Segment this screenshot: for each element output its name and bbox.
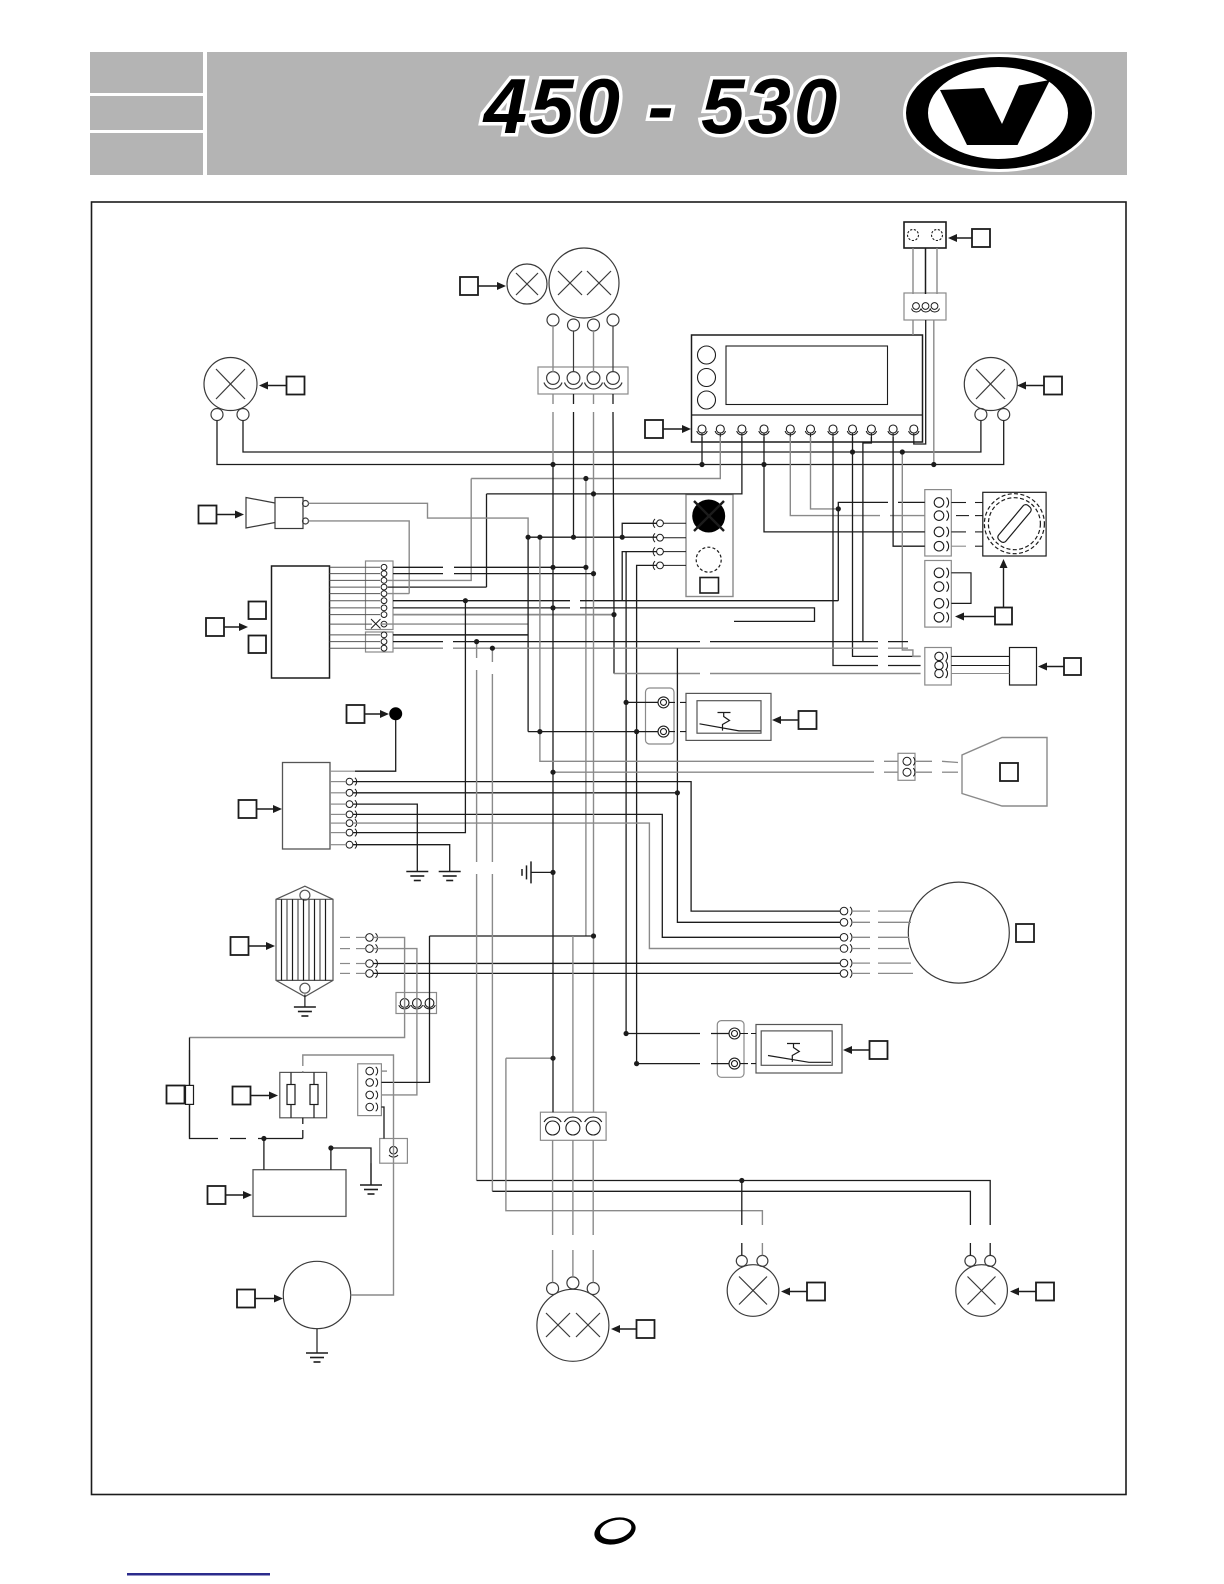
ECU box (253, 1170, 346, 1217)
diagram border frame (92, 202, 1127, 1495)
V logo inner white ellipse (928, 67, 1068, 159)
wire regulator pin3 to ground 1 (353, 804, 417, 871)
dashboard warning light 3 (698, 391, 716, 409)
alternator terminals (840, 907, 852, 978)
starter button box (380, 1139, 408, 1164)
V logo black ellipse (906, 57, 1092, 169)
wire spark feed B (553, 771, 898, 773)
alternator terminal stubs to body (852, 911, 913, 973)
wire rectifier pin1 (190, 937, 405, 1037)
wire tail lamp leads below connector (552, 1140, 554, 1282)
kill switch (filled) (692, 500, 725, 533)
wire CDI pin2 (393, 573, 594, 575)
wire CDI pin6 to key switch feed (393, 600, 838, 602)
label box top right device (948, 229, 990, 247)
wire horn bottom to CDI pin5 (309, 521, 410, 594)
tail lamp (537, 1289, 609, 1361)
label box thermo relay (772, 711, 817, 729)
rear indicator bus 2 (492, 1191, 970, 1255)
rectifier terminals (366, 933, 378, 978)
label box flasher (843, 1041, 888, 1059)
COMPONENTS TOP (204, 222, 1062, 442)
header left gray box row 1 (90, 52, 203, 93)
wire condenser to coil bottom rail (190, 1104, 303, 1138)
wire coil connector pin1 stub (381, 1070, 387, 1072)
position lamp (small) (507, 264, 547, 304)
footer blue rule (127, 1573, 270, 1576)
wire CDI pin4 stub (388, 586, 487, 588)
ground 2 (439, 872, 461, 881)
label box tail lamp (611, 1320, 655, 1338)
CDI unit box (272, 566, 330, 678)
ignition coil (280, 1072, 327, 1117)
dashboard terminal pins (697, 425, 919, 441)
wire CDI pin5 stub (388, 593, 410, 595)
wire dashboard T2 branch (471, 437, 720, 479)
wire tail pin2 riser (572, 936, 574, 1112)
wire horn top to kill switch pin2 (309, 503, 529, 537)
wire regulator pin5 to alternator pin4 (353, 823, 840, 948)
ignition switch connector (4 pin) (925, 490, 952, 556)
dashboard warning light 1 (698, 346, 716, 364)
wire dashboard T5 to key switch pin2 (790, 437, 925, 516)
HEADER (90, 52, 1127, 175)
dashboard unit (692, 335, 923, 442)
wire regulator pin7 to ground 2 (353, 845, 450, 872)
voltage regulator box (283, 763, 331, 850)
spark plug (pentagon) (962, 738, 1047, 807)
headlamp bullet terminals (547, 314, 619, 331)
label box spark plug (1000, 763, 1018, 781)
label box starter motor (237, 1290, 283, 1308)
wire dashboard T6 branch (811, 437, 839, 509)
top right 3-pin connector (904, 293, 946, 320)
COMPONENTS MIDDLE (199, 490, 1082, 849)
label box starter relay (1038, 658, 1081, 675)
wire kill line drop to flasher pin2 line (527, 537, 529, 731)
wire device pin3 to connector (936, 248, 938, 294)
wire brake connector pin1 to dashboard (912, 320, 914, 335)
wire rear left indicator bullet 1 riser (741, 1181, 743, 1256)
wire alternator pins 6 line (373, 972, 840, 974)
wire flasher2 pin1 line (626, 1033, 729, 1035)
wire battery dot to regulator top (355, 720, 396, 771)
front right turn indicator lamp (964, 358, 1017, 421)
wire tail feed 2 drop (491, 648, 493, 1191)
wire alternator pins 5 line (373, 962, 840, 964)
rear left turn indicator (727, 1255, 779, 1316)
wire flasher2 pin2 line (637, 1063, 729, 1065)
junction dot component (battery point) (389, 707, 402, 720)
wire kill switch pin4 (637, 565, 657, 1063)
front left turn indicator lamp (204, 358, 257, 421)
label box key switch (955, 559, 1012, 625)
turn signal flasher box (756, 1025, 842, 1074)
wire flasher1 stubs to box (669, 702, 686, 731)
wire kill switch pin2 line (528, 536, 657, 538)
label box regulator (239, 800, 283, 818)
tail lamp connector (3 socket) (540, 1112, 606, 1140)
wire starter relay pin3 line (614, 673, 921, 675)
wire alternator pin2 riser (677, 648, 840, 922)
header main gray band (207, 52, 1127, 175)
COMPONENTS BOTTOM (167, 882, 1055, 1362)
svg-text:450 - 530: 450 - 530 (482, 62, 841, 150)
regulator terminal stubs (330, 771, 355, 845)
wire spark feed A (540, 537, 898, 761)
wire device pin1 to connector (912, 248, 914, 294)
wire coil connector pin2 riser (381, 936, 429, 1082)
wire flasher1 pin1 line (626, 701, 658, 703)
dashboard LCD display (726, 346, 888, 405)
wire CDI pin8 gray trunk (393, 614, 614, 616)
label box rear left indicator (781, 1283, 825, 1301)
label box CDI left with arrow (206, 618, 248, 636)
rectifier ground (304, 995, 306, 1008)
horn (246, 498, 309, 529)
wire CDI pin7 long with jog (393, 608, 815, 622)
wire coil top to starter motor (303, 1055, 394, 1295)
label box horn (199, 506, 245, 524)
thermo fan relay box (686, 693, 771, 740)
wire CDI pin9 (381, 623, 528, 625)
wire kill switch pin3 (622, 552, 656, 601)
wire dashboard T3 branch (487, 437, 742, 494)
spark plug cap connector (2 pin) (898, 753, 915, 780)
rear indicator bus 3 (506, 1058, 763, 1255)
wire device pin2 to connector (925, 248, 927, 294)
label box CDI lower (249, 636, 267, 654)
V logo letter V (940, 80, 1050, 145)
wire headlamp main drop (pin1) (552, 394, 554, 465)
handlebar switch pod (653, 495, 733, 597)
jumper bracket pins 1-3 (951, 573, 971, 604)
wire key switch pin1 feed (838, 502, 925, 600)
key switch secondary connector (4 pin) (925, 561, 971, 628)
wire mid horizontal to coil connector pin2 (430, 935, 594, 937)
starter button ground (360, 1163, 382, 1194)
wire ECU riser 2 to ground (331, 1148, 371, 1185)
rectifier (hatched hexagon) (276, 886, 333, 997)
mid 3-pin connector (396, 993, 437, 1014)
wire rectifier pin2 (373, 949, 417, 1095)
thermo fan relay connector (2 pin) (646, 688, 675, 744)
wires spark connector to plug (915, 761, 958, 772)
wire regulator pin6 riser to CDI feed (353, 601, 465, 833)
starter relay connector (3 pin) (925, 648, 952, 686)
regulator terminals (346, 778, 357, 849)
wires starter connector to relay (951, 656, 1009, 673)
wire headlamp terminal 2 to connector (573, 331, 575, 372)
V logo outer white rim (903, 54, 1095, 172)
wire CDI lower pin1 (393, 634, 528, 636)
starter motor ground (306, 1329, 328, 1362)
wire condenser drop (189, 1038, 191, 1086)
CDI connector strip upper (9 pin) (366, 561, 394, 630)
rear indicator bus 1 (477, 1181, 991, 1256)
wire headlamp pin3 drop long (593, 394, 595, 1112)
starter relay box (1010, 648, 1037, 686)
wire dashboard T8 to starter relay pin1 (853, 437, 921, 656)
top right device (brake switch) (904, 222, 946, 248)
label box front right indicator (1017, 377, 1062, 395)
pod terminals (653, 519, 663, 570)
CDI connector strip lower (3 pin) (366, 632, 394, 652)
label box dot component (347, 705, 390, 723)
wire dashboard T10 to key switch pin4 (893, 437, 925, 546)
label box ECU (208, 1186, 253, 1204)
wire regulator pin2 to riser (353, 792, 677, 794)
header left gray box row 3 (90, 133, 203, 175)
header left gray box row 2 (90, 96, 203, 130)
bus B (front indicators return) (217, 421, 1004, 465)
wire regulator pin1 to alternator pin1 (353, 782, 840, 912)
headlamp (large, two filaments) (549, 248, 619, 318)
wire regulator pin4 to alternator pin3 (353, 814, 840, 937)
wire CDI lower pin2 long line to T9 (393, 641, 908, 643)
label box front left indicator (259, 377, 305, 395)
dashboard warning light 2 (698, 369, 716, 387)
wire dashboard T4 to key switch pin3 (764, 437, 925, 532)
wire dashboard T11 loop (914, 320, 926, 444)
headlamp 4-pin connector (538, 367, 628, 394)
wire CDI pin1 (393, 566, 586, 568)
label box dashboard (645, 420, 691, 438)
wire kill pin3 chain to flashers (625, 552, 627, 1034)
wire dashboard T1 to bus B (701, 437, 703, 465)
wire tail feed 1 drop (476, 642, 478, 1181)
wire CDI pin4 riser (486, 494, 488, 587)
wire headlamp terminal 3 to connector (593, 331, 595, 372)
label box rectifier (231, 937, 276, 955)
label box headlamp (460, 277, 506, 295)
wire brake connector to bus B (933, 320, 935, 465)
pod small square (700, 578, 719, 594)
wire coil connector pin4 to starter button (381, 1107, 384, 1139)
wire headlamp pin4 drop (613, 394, 614, 674)
footer page number O (591, 1513, 638, 1548)
label box condenser (167, 1086, 185, 1104)
wire ground 3 to main drop (531, 871, 553, 873)
wire flasher1 pin2 line (528, 731, 658, 733)
wires ignition connector to switch (951, 503, 983, 547)
alternator (generator) (908, 882, 1009, 983)
wire bus A drop to starter relay pin1 (902, 452, 920, 656)
wire dashboard T7 to starter relay pin2 (833, 437, 921, 666)
wire headlamp low beam drop (585, 479, 587, 937)
condenser (capacitor) (186, 1050, 194, 1138)
wire headlamp pin2 drop to kill line (573, 394, 575, 537)
wire headlamp terminal 1 to connector (552, 326, 554, 372)
CDI box to strip stub wires (330, 567, 381, 648)
label box rear right indicator (1010, 1283, 1054, 1301)
coil connector (4 pin) (358, 1064, 382, 1116)
pod button circle (696, 547, 721, 572)
ground 1 (406, 872, 428, 881)
starter motor (283, 1261, 350, 1328)
ground 3 (side facing) (522, 861, 531, 883)
wire tail pin1 spur (506, 1057, 553, 1059)
wire CDI pin3 riser (388, 479, 472, 581)
wire ECU riser 1 (263, 1139, 265, 1170)
label box alternator (1016, 924, 1034, 942)
wire dashboard T9 to CDI lower pin2 line (863, 437, 872, 642)
turn signal flasher connector (2 pin) (717, 1021, 744, 1078)
wire coil bottom center (302, 1118, 304, 1139)
wire CDI lower pin3 line (393, 647, 908, 649)
wire flasher2 stubs to box (740, 1034, 756, 1064)
ignition key switch (983, 492, 1046, 556)
bus A (front indicators supply) (243, 421, 981, 453)
label box CDI upper (249, 602, 267, 620)
label box ignition coil (233, 1087, 279, 1105)
rectifier terminal stubs (340, 937, 366, 973)
wire kill switch pin1 (622, 523, 656, 537)
rear right turn indicator (956, 1255, 1008, 1316)
tail lamp bullets (547, 1277, 600, 1295)
wire headlamp terminal 4 to connector (612, 326, 614, 372)
